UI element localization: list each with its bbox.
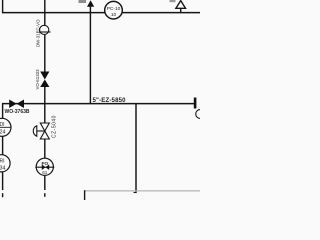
small gray mark left of relief arrow	[79, 0, 87, 3]
svg-text:PC-10: PC-10	[107, 6, 121, 12]
svg-text:61: 61	[42, 170, 48, 175]
svg-text:5"-EZ-5850: 5"-EZ-5850	[93, 97, 127, 104]
instrument PC-10 bubble on header line	[105, 1, 123, 19]
instrument RI-34	[0, 155, 10, 172]
wire: branch vertical line	[89, 7, 91, 104]
small gray mark top right	[170, 0, 176, 2]
fitting: circle with seat tick	[39, 25, 51, 34]
valve VO-61333 (filled gate valve, vertical)	[40, 72, 49, 88]
svg-text:24: 24	[0, 130, 6, 136]
flange bar at right edge	[194, 98, 197, 109]
svg-text:RI: RI	[0, 159, 5, 165]
zone boundary gray line	[85, 190, 201, 192]
control valve CZ-5040 (globe valve with actuator)	[33, 123, 49, 139]
sheet background	[0, 0, 200, 200]
wire: top-left vertical stub	[2, 0, 4, 13]
wire: top horizontal header line	[2, 12, 200, 14]
wire: main horizontal line	[2, 103, 194, 105]
wire: main vertical line upper	[44, 0, 46, 25]
wire: right vertical line	[135, 104, 137, 193]
wire	[2, 136, 4, 155]
svg-text:10: 10	[111, 12, 117, 18]
svg-text:WO-3763B: WO-3763B	[5, 109, 30, 115]
wire	[44, 87, 46, 123]
valve WO-3763B (filled valve on horizontal line)	[9, 100, 24, 109]
wire	[44, 35, 46, 73]
svg-text:DW-31EC-VO: DW-31EC-VO	[35, 19, 40, 47]
wire	[44, 175, 46, 190]
relief arrow (filled) on branch line	[87, 0, 94, 7]
svg-text:VO-61333: VO-61333	[35, 69, 40, 90]
instrument DI-24	[0, 118, 11, 136]
instrument circle at right edge (clipped)	[196, 110, 205, 119]
wire: left vertical drop	[2, 104, 4, 119]
instrument FO-61 (orifice)	[35, 158, 54, 175]
svg-text:34: 34	[0, 166, 6, 172]
wire: continuation dash	[2, 193, 4, 197]
svg-text:CZ-5040: CZ-5040	[51, 115, 57, 138]
wire: small foot at bottom of right vertical	[134, 192, 137, 194]
wire	[44, 139, 46, 158]
wire: continuation dash	[44, 193, 46, 197]
vent arrow top right (open)	[176, 1, 186, 13]
wire	[2, 172, 4, 190]
title block left edge	[84, 190, 86, 200]
svg-text:DI: DI	[0, 122, 5, 128]
